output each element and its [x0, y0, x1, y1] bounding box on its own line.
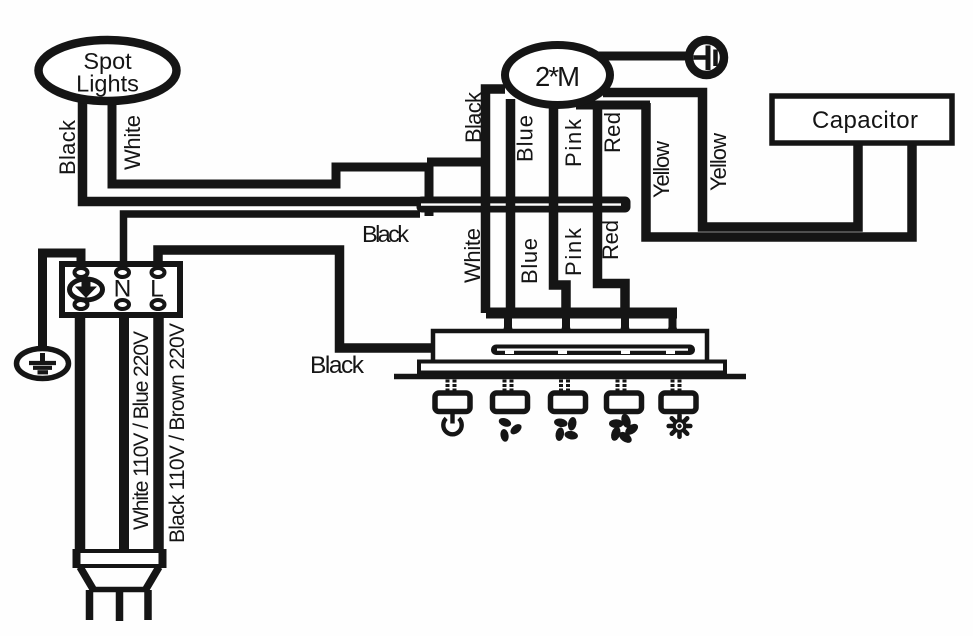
wire bus merged band [417, 197, 630, 212]
svg-text:N: N [114, 276, 132, 303]
ground symbol wire ellipse [17, 349, 69, 379]
motor wire pink [554, 100, 567, 314]
wire yellow 1 to capacitor right [646, 103, 912, 237]
icon light [669, 415, 691, 437]
plug body bar [76, 551, 163, 566]
switch slot bar [491, 345, 695, 356]
svg-text:Black: Black [55, 119, 80, 175]
terminal screws top row [75, 268, 165, 277]
wire motor to connector icon [598, 52, 688, 61]
earth badge circle [70, 279, 103, 300]
plug prong left [86, 590, 94, 620]
terminal foot 4 [665, 327, 680, 341]
svg-text:Black: Black [362, 221, 409, 247]
terminal block ground wire [43, 253, 82, 350]
button box 3 [551, 393, 586, 412]
springs and buttons [435, 381, 696, 412]
button box 1 [435, 393, 470, 412]
svg-text:Black 110V / Brown 220V: Black 110V / Brown 220V [166, 323, 189, 543]
wire white segment to motor black vertical [427, 158, 488, 167]
motor wire red [598, 104, 626, 314]
connector icon circle [689, 40, 724, 75]
button box 2 [493, 393, 528, 412]
switch terminal bar [486, 308, 677, 319]
wire yellow 2 to capacitor left [603, 93, 858, 228]
slot notch 4 [666, 351, 675, 354]
button box 4 [607, 393, 642, 412]
plug bar left cap [73, 549, 81, 568]
svg-text:White: White [460, 228, 485, 283]
plug bottom edge [90, 587, 148, 593]
terminal block box [62, 264, 180, 315]
spring 1 [446, 381, 460, 390]
svg-text:Capacitor: Capacitor [812, 107, 918, 134]
wire white from spot lights stepped [112, 95, 429, 184]
terminal screws bottom row [75, 300, 165, 309]
svg-text:White: White [120, 115, 145, 170]
slot notch 3 [621, 351, 630, 354]
plug trapezoid right side [146, 567, 159, 589]
wire line B from N terminal [124, 214, 421, 266]
svg-text:Black: Black [461, 91, 486, 143]
terminal riser 4 [669, 313, 677, 331]
terminal foot 2 [559, 327, 574, 341]
svg-text:Pink: Pink [561, 118, 586, 167]
spring 5 [671, 381, 685, 390]
terminal foot 3 [618, 327, 633, 341]
terminal riser 3 [621, 313, 629, 331]
capacitor box [772, 96, 952, 143]
switch housing box [433, 331, 707, 362]
switch slot highlight [497, 349, 688, 351]
connector icon plug bars [694, 46, 716, 71]
svg-text:Blue: Blue [513, 115, 538, 162]
svg-text:Lights: Lights [76, 71, 139, 97]
icon fan low [498, 416, 524, 442]
svg-text:Red: Red [600, 112, 625, 153]
terminal riser 1 [504, 313, 512, 331]
svg-text:Black: Black [310, 352, 365, 379]
cord wire left [75, 315, 86, 552]
wire bus white seam [421, 203, 621, 205]
motor wire blue [506, 99, 516, 313]
svg-text:White 110V / Blue 220V: White 110V / Blue 220V [130, 331, 153, 530]
cord wire right [153, 315, 164, 552]
icon fan medium [553, 416, 578, 441]
terminal block L wire into switch [158, 250, 434, 348]
wire junction vertical [425, 163, 434, 216]
svg-text:Yellow: Yellow [706, 133, 731, 191]
plug prong right [144, 590, 152, 620]
svg-text:Red: Red [598, 220, 623, 260]
slot notch 2 [558, 351, 567, 354]
motor bottom connector [576, 101, 650, 110]
svg-text:Yellow: Yellow [649, 141, 674, 198]
cord wire middle [119, 315, 129, 552]
motor wire black [486, 89, 506, 313]
switch base box [419, 362, 725, 373]
spring 2 [503, 381, 517, 390]
icon fan high [609, 413, 640, 446]
terminal foot 1 [501, 327, 516, 341]
earth bars [29, 353, 56, 372]
svg-text:L: L [150, 276, 164, 303]
svg-text:Blue: Blue [517, 238, 542, 284]
plug prong middle [116, 590, 124, 621]
wire black from spot lights to bus line A [83, 99, 426, 202]
button box 5 [661, 393, 696, 412]
plug bar right cap [159, 549, 167, 568]
svg-text:Pink: Pink [561, 227, 586, 276]
spring 4 [616, 381, 630, 390]
motor oval 2*M [505, 45, 610, 105]
switch plate line [394, 374, 746, 380]
spot lights oval [39, 40, 177, 101]
terminal riser 2 [562, 313, 570, 331]
plug trapezoid left side [80, 567, 93, 589]
spring 3 [559, 381, 573, 390]
earth badge arrow [75, 282, 97, 299]
svg-text:2*M: 2*M [535, 61, 580, 92]
slot notch 1 [505, 351, 514, 354]
icon power [443, 412, 461, 435]
